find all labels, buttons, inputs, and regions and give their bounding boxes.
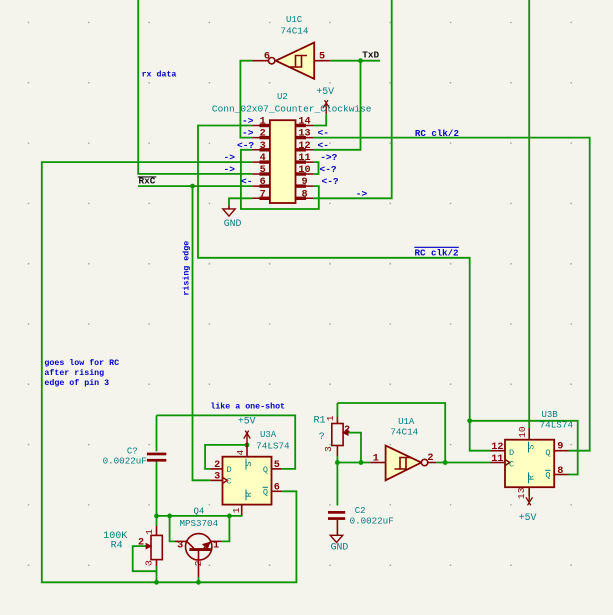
svg-text:TxD: TxD — [362, 50, 379, 61]
svg-text:74LS74: 74LS74 — [256, 440, 290, 451]
svg-text:6: 6 — [264, 52, 270, 63]
svg-text:9: 9 — [301, 177, 307, 188]
svg-text:<-: <- — [318, 128, 329, 139]
svg-text:2: 2 — [214, 460, 220, 471]
svg-text:U1C: U1C — [286, 15, 303, 25]
svg-text:S: S — [526, 444, 536, 449]
svg-text:MPS3704: MPS3704 — [179, 518, 218, 529]
svg-text:R: R — [244, 492, 254, 497]
svg-text:C: C — [227, 477, 232, 487]
svg-text:6: 6 — [274, 483, 280, 494]
svg-text:0.0022uF: 0.0022uF — [103, 456, 147, 467]
svg-text:6: 6 — [260, 177, 266, 188]
svg-text:5: 5 — [319, 52, 325, 63]
svg-text:->: -> — [224, 164, 236, 175]
svg-text:<-: <- — [241, 176, 252, 187]
svg-text:->: -> — [242, 116, 254, 127]
svg-text:?: ? — [319, 432, 325, 443]
svg-text:12: 12 — [491, 442, 503, 453]
svg-text:->: -> — [356, 188, 368, 199]
svg-text:Q4: Q4 — [193, 507, 204, 517]
svg-text:1: 1 — [213, 540, 219, 551]
svg-text:74C14: 74C14 — [281, 26, 309, 37]
svg-text:8: 8 — [557, 466, 563, 477]
svg-text:RC clk/2: RC clk/2 — [415, 128, 459, 139]
svg-text:D: D — [509, 448, 514, 458]
svg-text:2: 2 — [427, 453, 433, 464]
svg-text:C: C — [509, 460, 514, 470]
svg-text:<-: <- — [318, 140, 329, 151]
svg-text:U3A: U3A — [260, 430, 277, 440]
svg-text:goes low for RC: goes low for RC — [44, 358, 119, 368]
svg-text:like a one-shot: like a one-shot — [210, 402, 285, 412]
svg-text:1: 1 — [325, 415, 336, 421]
svg-text:+5V: +5V — [316, 86, 334, 97]
svg-text:3: 3 — [260, 141, 266, 152]
svg-text:<-?: <-? — [237, 140, 254, 151]
svg-text:3: 3 — [214, 472, 220, 483]
svg-text:GND: GND — [331, 542, 349, 553]
svg-text:GND: GND — [224, 218, 242, 229]
svg-text:2: 2 — [193, 560, 204, 566]
svg-text:74C14: 74C14 — [390, 427, 418, 438]
svg-text:->: -> — [242, 128, 254, 139]
svg-text:after rising: after rising — [44, 368, 104, 378]
svg-text:12: 12 — [298, 141, 310, 152]
svg-text:13: 13 — [298, 129, 310, 140]
svg-text:3: 3 — [323, 446, 334, 452]
svg-text:Q: Q — [545, 448, 550, 458]
svg-text:D: D — [227, 465, 232, 475]
svg-text:1: 1 — [144, 529, 155, 535]
svg-text:3: 3 — [144, 560, 155, 566]
svg-text:rising edge: rising edge — [181, 241, 191, 296]
svg-text:1: 1 — [373, 454, 379, 465]
svg-text:+5V: +5V — [238, 415, 256, 426]
svg-text:Q: Q — [263, 465, 268, 475]
svg-text:rx data: rx data — [142, 69, 177, 79]
svg-text:S: S — [244, 461, 254, 466]
svg-text:0.0022uF: 0.0022uF — [350, 515, 394, 526]
svg-text:9: 9 — [557, 442, 563, 453]
svg-text:74LS74: 74LS74 — [540, 420, 574, 431]
svg-text:<-?: <-? — [322, 176, 339, 187]
svg-text:RC clk/2: RC clk/2 — [414, 247, 458, 258]
svg-text:edge of pin 3: edge of pin 3 — [44, 378, 109, 388]
svg-text:2: 2 — [344, 425, 350, 436]
svg-text:3: 3 — [177, 541, 183, 552]
svg-text:10: 10 — [298, 165, 310, 176]
svg-text:<-?: <-? — [320, 164, 337, 175]
svg-text:1: 1 — [260, 117, 266, 128]
svg-text:->?: ->? — [320, 152, 337, 163]
svg-text:1: 1 — [231, 507, 242, 513]
svg-text:11: 11 — [491, 454, 503, 465]
svg-text:10: 10 — [517, 426, 528, 438]
svg-text:2: 2 — [138, 538, 144, 549]
svg-text:7: 7 — [260, 189, 266, 200]
svg-text:4: 4 — [260, 153, 266, 164]
svg-text:Q: Q — [263, 488, 268, 498]
svg-text:4: 4 — [235, 449, 246, 455]
svg-text:Q: Q — [545, 471, 550, 481]
svg-text:Conn_02x07_Counter_Clockwise: Conn_02x07_Counter_Clockwise — [212, 104, 372, 115]
svg-text:U2: U2 — [277, 92, 288, 102]
svg-text:13: 13 — [516, 487, 527, 499]
svg-text:R: R — [526, 475, 536, 480]
svg-text:R1: R1 — [313, 416, 325, 427]
svg-text:+5V: +5V — [519, 512, 537, 523]
svg-text:5: 5 — [260, 165, 266, 176]
svg-text:5: 5 — [274, 460, 280, 471]
svg-text:8: 8 — [301, 189, 307, 200]
svg-text:->: -> — [224, 152, 236, 163]
svg-text:R4: R4 — [111, 540, 123, 551]
svg-text:11: 11 — [298, 153, 310, 164]
svg-text:14: 14 — [298, 117, 310, 128]
svg-text:2: 2 — [260, 129, 266, 140]
